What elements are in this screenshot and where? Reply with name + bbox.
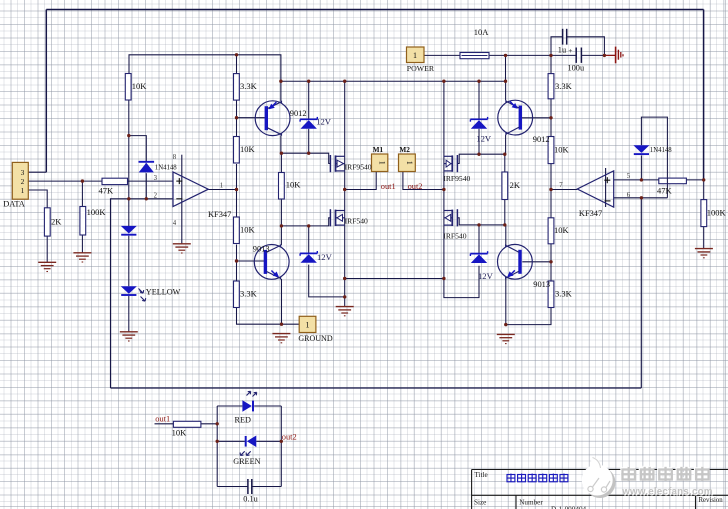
transistor Q1 9012 — [255, 101, 290, 136]
wire +12V fuse node vertical — [505, 55, 507, 81]
ground GND7 right emitter — [497, 333, 515, 335]
wire lamp box top — [217, 405, 242, 407]
resistor R10 2K right — [502, 172, 508, 200]
svg-text:6: 6 — [627, 192, 631, 199]
wire left resistor ladder x=236.5 — [236, 55, 238, 74]
junction dots — [235, 53, 238, 56]
svg-text:3: 3 — [21, 168, 25, 177]
mosfet VT4 IRF540 — [456, 209, 458, 226]
wire 100K top lead — [81, 181, 83, 206]
svg-text:12V: 12V — [317, 252, 333, 262]
ground GND2 100K — [73, 252, 91, 254]
svg-text:7: 7 — [559, 182, 563, 189]
wire Q4 emitter to ground — [505, 279, 507, 325]
capacitor C2 100u — [575, 48, 577, 63]
svg-text:IRF540: IRF540 — [345, 216, 368, 225]
transistor Q2 9012 — [498, 100, 533, 135]
svg-text:12V: 12V — [476, 134, 492, 144]
svg-text:2: 2 — [21, 177, 25, 186]
wire zener D6 bottom to drain-gnd rail — [309, 265, 345, 297]
svg-text:10K: 10K — [554, 145, 570, 155]
svg-text:M2: M2 — [399, 145, 410, 154]
svg-text:10K: 10K — [240, 144, 256, 154]
wire Q3 emitter to ground rail — [281, 279, 283, 324]
svg-text:Number: Number — [519, 498, 543, 506]
svg-text:RED: RED — [235, 416, 251, 425]
svg-text:GREEN: GREEN — [233, 457, 260, 466]
svg-text:10K: 10K — [554, 225, 570, 235]
svg-text:+: + — [568, 46, 572, 55]
wire lamp box bottom — [217, 486, 247, 488]
svg-text:100u: 100u — [568, 63, 585, 72]
wire 1N4148 right bottom lead — [640, 155, 642, 180]
wire U2 power pins — [605, 168, 607, 207]
svg-text:10K: 10K — [286, 180, 302, 190]
svg-text:KF347: KF347 — [579, 209, 602, 218]
svg-text:100K: 100K — [87, 207, 107, 217]
wire zener D5 top lead — [308, 81, 310, 119]
svg-text:5: 5 — [627, 173, 631, 180]
wire 2K to ground — [46, 236, 48, 262]
resistor R4 10K — [234, 217, 240, 244]
wire lamp box right — [280, 406, 282, 487]
watermark elecfans text — [622, 467, 635, 479]
svg-text:2K: 2K — [51, 217, 62, 227]
diode D3 YELLOW LED — [121, 286, 137, 294]
svg-text:IRF540: IRF540 — [443, 232, 466, 241]
resistor R13 10K right — [548, 218, 554, 244]
svg-text:IRF9540: IRF9540 — [443, 174, 470, 183]
wire Q2 emitter — [505, 81, 507, 100]
wire right rail to zener D8 bottom — [444, 266, 479, 298]
wire U1 output — [208, 189, 236, 191]
connector J2 DATA — [12, 162, 28, 199]
wire lamp box middle — [217, 440, 245, 442]
ground GND1 2K — [38, 261, 56, 263]
svg-text:2: 2 — [154, 193, 158, 200]
wire main power bus — [424, 54, 460, 56]
wire Q2 base — [522, 117, 551, 119]
resistor R1 10K pullup — [125, 74, 131, 101]
svg-text:1: 1 — [413, 51, 417, 60]
wire out1 lamp input — [155, 423, 174, 425]
zener D5 12V — [300, 118, 317, 120]
svg-text:9012: 9012 — [533, 135, 550, 144]
wire right resistor ladder x=551 — [550, 55, 552, 73]
wire right border — [703, 10, 705, 181]
capacitor C1 1u — [562, 29, 564, 45]
wire top border — [46, 9, 703, 11]
watermark elecfans logo — [582, 456, 616, 498]
wire right bridge rail x=443.9 — [443, 81, 445, 278]
wire +12V distribution bus y=81 — [281, 80, 506, 82]
svg-text:47K: 47K — [657, 186, 673, 196]
wire feedback right vertical — [640, 198, 642, 388]
svg-text:www.elecfans.com: www.elecfans.com — [621, 487, 713, 498]
wire zener D6 top lead — [308, 226, 310, 253]
svg-text:1u: 1u — [558, 45, 566, 54]
wire gate2 left — [281, 218, 330, 226]
resistor R14 3.3K right — [548, 281, 554, 308]
resistor R16 100K right — [701, 200, 707, 227]
wire zener D8 top lead — [478, 225, 480, 254]
ground GND4 LED chain — [120, 331, 138, 333]
wire Q1 base — [237, 117, 265, 119]
mosfet VT2 IRF540 — [329, 209, 331, 226]
wire op-amp - input — [111, 199, 174, 388]
resistor R15 47K right — [659, 178, 687, 184]
transistor Q3 9013 — [254, 245, 289, 280]
title text DC motor drive — [507, 474, 515, 482]
wire 100K right leads — [703, 180, 705, 200]
svg-text:10K: 10K — [132, 81, 148, 91]
svg-text:4: 4 — [173, 220, 177, 227]
wire left border — [45, 10, 47, 173]
svg-text:12V: 12V — [316, 117, 332, 127]
wire zener D5 bottom lead — [308, 129, 310, 153]
resistor R5 3.3K — [234, 281, 240, 308]
mosfet VT3 IRF9540 — [456, 155, 458, 172]
capacitor C3 0.1u — [247, 479, 249, 494]
wire 1N4148 cathode to inverting input — [145, 173, 147, 199]
connector J3 GROUND — [299, 316, 316, 332]
wire 2K right leads — [504, 154, 506, 172]
svg-text:POWER: POWER — [407, 64, 435, 73]
wire Q4 collector — [505, 225, 507, 245]
svg-text:out1: out1 — [381, 182, 396, 191]
transistor Q4 9013 — [498, 244, 533, 279]
wire left ladder bottom to ground rail — [237, 307, 300, 324]
power ground PG1 — [604, 54, 615, 56]
wire out1 stub to M1 — [345, 172, 377, 190]
svg-text:out1: out1 — [155, 414, 170, 423]
svg-text:3: 3 — [154, 175, 158, 182]
svg-text:9013: 9013 — [533, 280, 550, 289]
wire 1N4148 loop right — [641, 117, 667, 198]
svg-text:out2: out2 — [408, 182, 423, 191]
wire jog to 1N4148 — [129, 136, 147, 162]
resistor R11 3.3K right — [548, 74, 554, 99]
wire Q3 base — [237, 260, 265, 262]
resistor R2 3.3K — [234, 74, 240, 101]
wire gate2 right — [457, 218, 504, 225]
wire +12V top-left bus — [129, 55, 281, 102]
resistor R6 10K middle — [279, 173, 285, 200]
svg-text:12V: 12V — [478, 271, 494, 281]
svg-text:10K: 10K — [240, 225, 256, 235]
svg-text:9013: 9013 — [253, 245, 270, 254]
wire 1u bypass loop — [551, 37, 562, 56]
resistor R3 10K — [234, 137, 240, 164]
wire 10K mid leads — [280, 153, 282, 172]
LED D10 GREEN — [247, 436, 256, 448]
ground GND5 left rail — [272, 333, 290, 335]
svg-text:GROUND: GROUND — [298, 334, 332, 343]
wire U2 output — [551, 189, 577, 191]
svg-text:1: 1 — [220, 183, 223, 190]
op-amp U1 KF347 — [173, 172, 208, 207]
diode D1 1N4148 — [139, 161, 155, 163]
resistor R17 10K lamp — [173, 421, 201, 427]
connector M1 — [372, 154, 388, 172]
wire 100K bottom lead — [81, 235, 83, 253]
svg-text:2K: 2K — [510, 180, 521, 190]
svg-text:1: 1 — [378, 161, 387, 165]
zener D7 12V — [470, 118, 487, 120]
wire right ladder bottom — [506, 307, 551, 324]
svg-text:M1: M1 — [373, 145, 384, 154]
svg-text:out2: out2 — [282, 432, 297, 441]
wire LED chain — [128, 236, 130, 287]
wire out2 stub to M2 — [403, 172, 444, 190]
resistor R7 2K — [44, 208, 50, 236]
zener D8 12V — [470, 253, 487, 255]
wire Q3 collector — [280, 226, 282, 245]
wire U1 power pins — [181, 155, 183, 244]
op-amp U2 KF347 — [577, 171, 613, 207]
wire Q2 collector — [505, 135, 507, 154]
svg-text:0.1u: 0.1u — [243, 495, 258, 504]
svg-text:Title: Title — [474, 471, 487, 479]
svg-text:KF347: KF347 — [208, 210, 231, 219]
svg-text:47K: 47K — [99, 185, 115, 195]
svg-text:1: 1 — [306, 321, 310, 330]
svg-text:3.3K: 3.3K — [555, 288, 573, 298]
wire cross-connect y=278.5 — [345, 278, 444, 280]
resistor R8 100K — [80, 207, 86, 236]
svg-text:YELLOW: YELLOW — [146, 288, 181, 297]
LED D9 RED — [242, 400, 251, 412]
wire feedback bottom rail — [111, 387, 642, 389]
connector M2 — [399, 154, 416, 172]
svg-text:D-1-000404: D-1-000404 — [551, 506, 587, 509]
ground GND8 100K right — [695, 248, 713, 250]
svg-text:1N4148: 1N4148 — [650, 147, 673, 154]
svg-text:DATA: DATA — [3, 200, 25, 209]
svg-text:8: 8 — [173, 154, 177, 161]
wire gate1 left — [281, 153, 330, 163]
svg-text:Size: Size — [474, 498, 486, 506]
wire Q4 base — [522, 261, 551, 263]
diode D2 LED — [121, 226, 137, 234]
wire U2 + input pin5 — [614, 179, 704, 181]
svg-text:3.3K: 3.3K — [555, 81, 573, 91]
fuse F1 10A — [460, 53, 489, 59]
ground GND6 bridge rail — [336, 306, 354, 308]
title block — [472, 470, 728, 509]
resistor R9 47K — [102, 178, 128, 184]
wire DATA pin3 to border — [28, 171, 46, 173]
wire U2 - input pin6 — [614, 197, 668, 199]
svg-text:IRF9540: IRF9540 — [345, 163, 372, 172]
wire lamp box left — [216, 406, 218, 487]
wire DATA pin1 to 2K — [28, 190, 47, 208]
connector J1 POWER — [407, 47, 425, 63]
zener D6 12V — [300, 252, 317, 254]
svg-text:1: 1 — [405, 161, 414, 165]
wire left bridge rail x=344.7 — [344, 81, 346, 306]
diode D4 1N4148 right — [633, 145, 649, 153]
wire left pullup chain vertical — [128, 100, 130, 226]
resistor R12 10K right — [548, 137, 554, 164]
svg-text:3.3K: 3.3K — [240, 81, 258, 91]
svg-text:1: 1 — [21, 186, 25, 195]
wire DATA pin2 to op-amp + input — [28, 180, 173, 182]
svg-text:9012: 9012 — [290, 109, 307, 118]
ground GND3 U1 — [173, 243, 191, 245]
svg-text:100K: 100K — [707, 207, 727, 217]
wire gate1 right — [457, 154, 504, 163]
svg-text:10K: 10K — [172, 428, 188, 438]
svg-text:3.3K: 3.3K — [240, 288, 258, 298]
mosfet VT1 IRF9540 — [329, 155, 331, 172]
svg-text:10A: 10A — [474, 27, 490, 37]
wire Q1 collector to gate1 — [280, 135, 282, 153]
svg-text:1N4148: 1N4148 — [155, 164, 178, 171]
wire zener D7 leads — [478, 81, 480, 119]
